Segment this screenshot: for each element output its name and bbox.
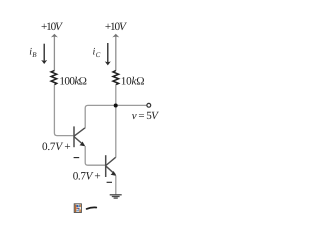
label VBE2 minus bbox=[107, 181, 112, 183]
svg-text:10kΩ: 10kΩ bbox=[121, 75, 145, 87]
svg-text:+10V: +10V bbox=[105, 21, 127, 33]
wire right supply arrow up bbox=[115, 36, 117, 71]
transistor Q2 base bar bbox=[105, 155, 107, 177]
ground symbol bbox=[110, 195, 122, 198]
terminal open circle output bbox=[147, 103, 151, 107]
svg-text:+10V: +10V bbox=[41, 21, 63, 33]
broken image icon bbox=[74, 204, 81, 213]
transistor Q1 collector lead bbox=[74, 128, 85, 136]
current arrow iC bbox=[107, 43, 109, 62]
wire right branch down to Q2 collector bbox=[115, 85, 117, 158]
transistor Q2 emitter lead with arrow bbox=[106, 166, 116, 176]
svg-text:100kΩ: 100kΩ bbox=[59, 75, 86, 87]
transistor Q1 base bar bbox=[73, 126, 75, 147]
svg-text:v = 5V: v = 5V bbox=[132, 110, 159, 122]
resistor RB 100k zigzag bbox=[51, 71, 57, 85]
svg-text:B: B bbox=[32, 51, 37, 59]
wire left branch down to base bend bbox=[54, 85, 73, 136]
svg-text:C: C bbox=[96, 51, 101, 59]
resistor RC 10k zigzag bbox=[113, 71, 119, 85]
transistor Q2 collector lead bbox=[106, 157, 116, 165]
current arrow iB bbox=[43, 44, 45, 61]
wire Q1 collector up to top node bbox=[85, 105, 147, 128]
junction dot at output node bbox=[114, 104, 118, 108]
label VBE1 minus bbox=[74, 157, 80, 159]
wire Q1 emitter down then right to Q2 base bbox=[85, 146, 105, 165]
svg-text:0.7V +: 0.7V + bbox=[42, 141, 70, 153]
transistor Q1 emitter lead with arrow bbox=[74, 137, 85, 147]
wire left supply arrow up bbox=[53, 36, 55, 71]
dash after icon bbox=[87, 207, 97, 209]
wire Q2 emitter down to ground bbox=[115, 176, 117, 195]
svg-text:0.7V +: 0.7V + bbox=[73, 170, 101, 182]
